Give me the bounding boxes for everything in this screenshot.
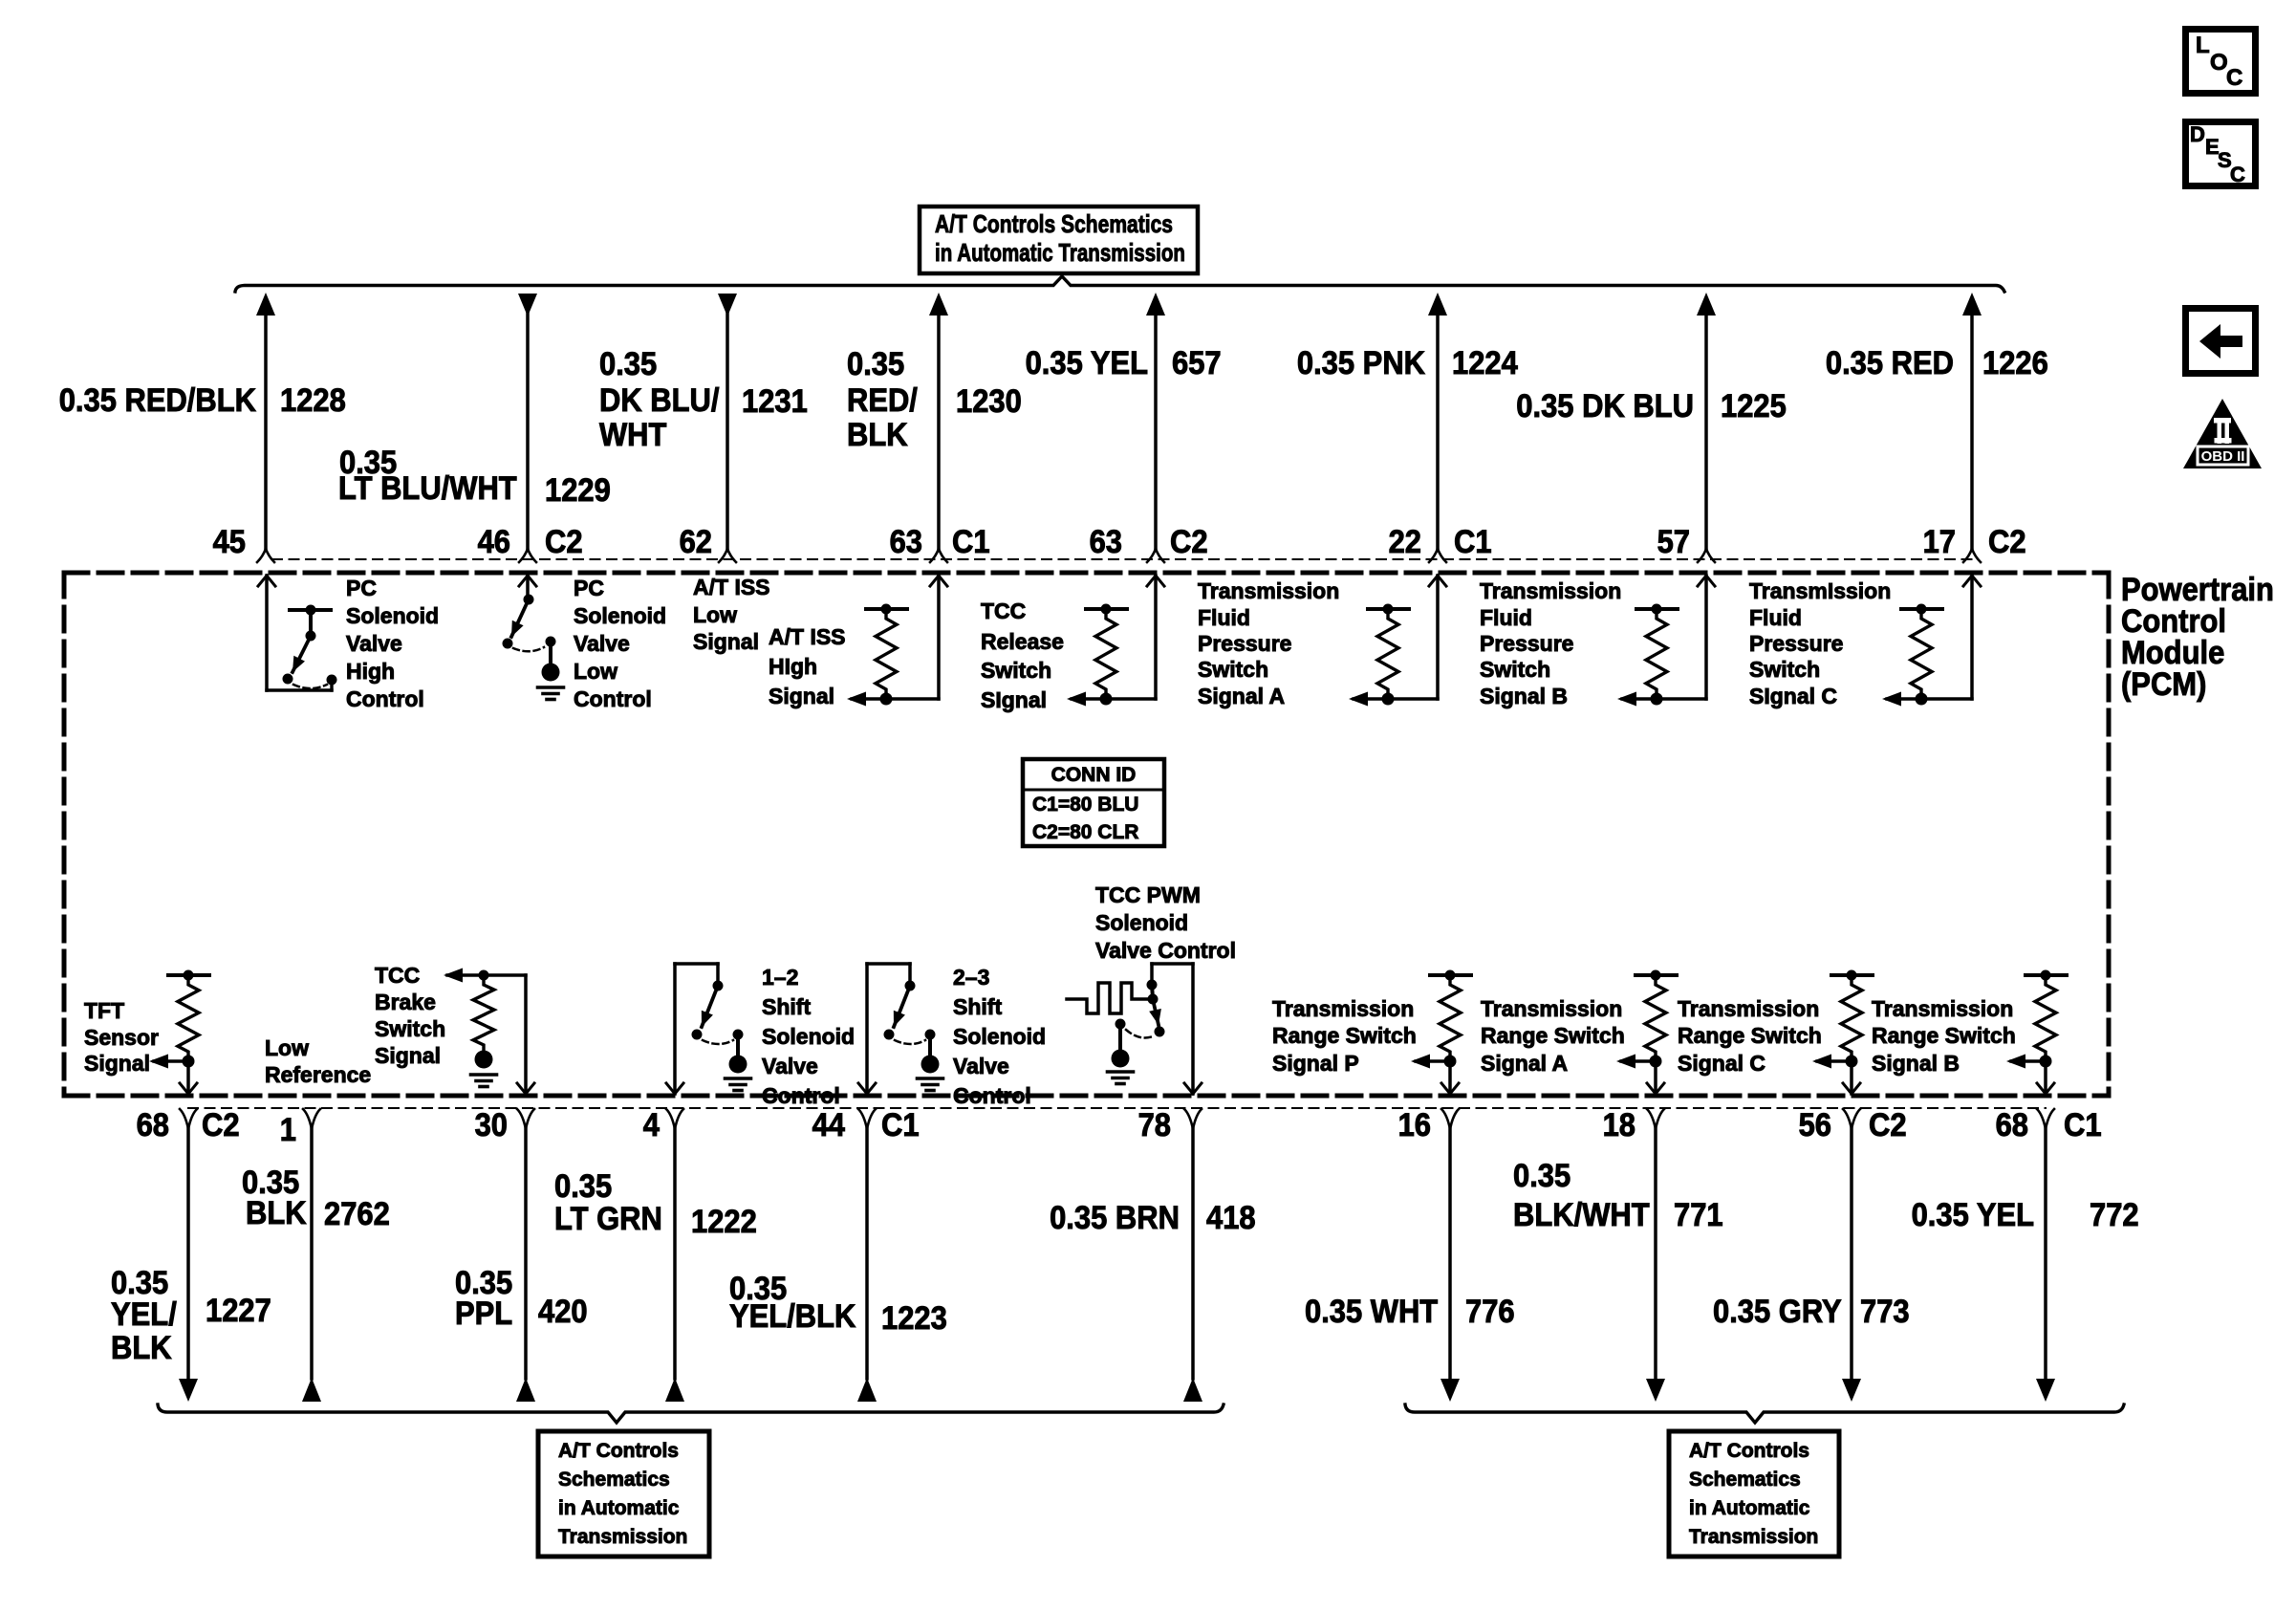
LOC icon <box>2186 30 2256 94</box>
svg-text:17: 17 <box>1923 524 1956 560</box>
svg-text:YEL/BLK: YEL/BLK <box>729 1298 856 1335</box>
svg-text:Transmission: Transmission <box>1678 996 1819 1021</box>
svg-text:Range Switch: Range Switch <box>1481 1023 1625 1048</box>
svg-text:0.35 YEL: 0.35 YEL <box>1026 345 1148 381</box>
svg-text:Valve: Valve <box>762 1054 818 1078</box>
svg-text:1227: 1227 <box>206 1293 271 1329</box>
svg-text:772: 772 <box>2090 1197 2139 1233</box>
svg-text:420: 420 <box>538 1294 588 1330</box>
svg-text:Solenoid: Solenoid <box>953 1024 1046 1049</box>
svg-text:44: 44 <box>812 1107 845 1143</box>
svg-text:Schematics: Schematics <box>558 1469 670 1491</box>
wire circuit 1224 (top, x=1504) <box>1428 293 1447 316</box>
PC solenoid valve high control switch (pin 45) <box>258 576 275 586</box>
svg-text:Pressure: Pressure <box>1198 631 1291 656</box>
svg-text:Schematics: Schematics <box>1689 1469 1801 1491</box>
svg-text:D: D <box>2190 122 2205 146</box>
svg-text:C2: C2 <box>1988 524 2026 560</box>
1-2 shift solenoid valve control switch (pin 4) <box>673 964 677 1094</box>
svg-text:1224: 1224 <box>1452 345 1518 381</box>
svg-text:in Automatic: in Automatic <box>1689 1497 1810 1519</box>
wire circuit 1228 (top, x=278) <box>256 293 275 316</box>
svg-text:BLK: BLK <box>847 417 908 453</box>
svg-text:Valve: Valve <box>574 631 630 656</box>
svg-text:C1: C1 <box>881 1107 920 1143</box>
svg-text:TCC: TCC <box>375 963 420 988</box>
svg-text:C: C <box>2230 163 2245 186</box>
svg-text:Solenoid: Solenoid <box>346 603 439 628</box>
wire circuit 1222 (bottom, x=706) <box>666 1109 675 1129</box>
wire circuit 1225 (top, x=1785) <box>1697 293 1716 316</box>
svg-text:0.35 BRN: 0.35 BRN <box>1050 1200 1180 1236</box>
svg-text:Transmission: Transmission <box>1481 996 1622 1021</box>
PC solenoid valve low control switch (pin 46) <box>519 576 536 586</box>
svg-text:56: 56 <box>1799 1107 1831 1143</box>
OBD II icon <box>2183 399 2262 468</box>
ground <box>538 686 564 689</box>
wire circuit 418 (bottom, x=1248) <box>1184 1109 1193 1129</box>
wire circuit 657 (top, x=1209) <box>1146 293 1165 316</box>
transmission range switch signal B resistor (pin 68 C1) <box>2025 973 2067 977</box>
svg-text:Switch: Switch <box>981 658 1051 683</box>
wire circuit 1226 (top, x=2063) <box>1962 293 1982 316</box>
svg-text:Sensor: Sensor <box>84 1025 159 1050</box>
svg-text:C1: C1 <box>952 524 990 560</box>
svg-text:LT BLU/WHT: LT BLU/WHT <box>338 470 517 507</box>
svg-text:Transmission: Transmission <box>1872 996 2013 1021</box>
wire circuit 420 (bottom, x=550) <box>517 1109 526 1129</box>
svg-text:68: 68 <box>137 1107 169 1143</box>
svg-text:Low: Low <box>574 659 617 684</box>
svg-text:Signal: Signal <box>375 1043 441 1068</box>
svg-text:Release: Release <box>981 629 1064 654</box>
svg-text:Switch: Switch <box>1480 657 1550 682</box>
ground <box>726 1077 751 1080</box>
transmission fluid pressure switch signal A resistor (pin 22) <box>1368 607 1409 611</box>
svg-text:1223: 1223 <box>881 1300 947 1337</box>
svg-text:16: 16 <box>1398 1107 1431 1143</box>
svg-text:2–3: 2–3 <box>953 965 989 990</box>
svg-text:1225: 1225 <box>1721 388 1787 425</box>
label box: A/T Controls Schematics in Automatic Transmission (bottom left) <box>538 1431 709 1557</box>
svg-text:YEL/: YEL/ <box>111 1296 177 1333</box>
wire circuit 773 (bottom, x=1937) <box>1843 1109 1852 1129</box>
svg-text:18: 18 <box>1603 1107 1635 1143</box>
DESC icon <box>2186 122 2256 186</box>
svg-text:0.35 GRY: 0.35 GRY <box>1713 1294 1842 1330</box>
svg-text:1231: 1231 <box>742 383 808 420</box>
svg-text:Range Switch: Range Switch <box>1872 1023 2016 1048</box>
ground <box>1108 1070 1134 1074</box>
svg-text:Transmission: Transmission <box>1689 1526 1818 1548</box>
TCC release switch signal resistor (pin 63 C2) <box>1086 607 1127 611</box>
svg-text:Fluid: Fluid <box>1480 605 1532 630</box>
svg-text:63: 63 <box>890 524 922 560</box>
svg-text:657: 657 <box>1172 345 1222 381</box>
svg-text:A/T Controls: A/T Controls <box>558 1440 679 1462</box>
svg-text:Valve Control: Valve Control <box>1095 938 1236 963</box>
svg-text:773: 773 <box>1860 1294 1910 1330</box>
svg-text:C1: C1 <box>1454 524 1492 560</box>
bottom brace (left group) <box>158 1404 1224 1423</box>
svg-text:Pressure: Pressure <box>1480 631 1573 656</box>
svg-text:1226: 1226 <box>1982 345 2048 381</box>
svg-text:Solenoid: Solenoid <box>1095 910 1188 935</box>
svg-text:1222: 1222 <box>691 1204 757 1240</box>
svg-text:DK BLU/: DK BLU/ <box>599 382 720 419</box>
svg-text:1230: 1230 <box>956 383 1022 420</box>
ground <box>471 1073 497 1077</box>
svg-text:0.35 YEL: 0.35 YEL <box>1912 1197 2034 1233</box>
svg-text:0.35: 0.35 <box>599 346 657 382</box>
svg-text:Switch: Switch <box>375 1016 445 1041</box>
svg-text:Transmission: Transmission <box>1198 578 1339 603</box>
svg-text:0.35: 0.35 <box>1513 1158 1570 1194</box>
svg-text:0.35 RED: 0.35 RED <box>1826 345 1954 381</box>
svg-text:22: 22 <box>1389 524 1421 560</box>
svg-text:Transmission: Transmission <box>1480 578 1621 603</box>
svg-text:RED/: RED/ <box>847 382 918 419</box>
svg-text:4: 4 <box>643 1107 660 1143</box>
svg-text:in Automatic: in Automatic <box>558 1497 680 1519</box>
svg-text:C1: C1 <box>2064 1107 2102 1143</box>
svg-text:0.35 RED/BLK: 0.35 RED/BLK <box>59 382 257 419</box>
bottom brace (right group) <box>1405 1404 2124 1423</box>
svg-text:CONN ID: CONN ID <box>1051 764 1137 786</box>
svg-text:C2: C2 <box>1869 1107 1907 1143</box>
svg-text:Low: Low <box>265 1035 309 1060</box>
svg-text:Shift: Shift <box>953 994 1002 1019</box>
svg-text:SIgnal C: SIgnal C <box>1749 684 1837 708</box>
svg-text:TCC PWM: TCC PWM <box>1095 882 1201 907</box>
svg-text:in Automatic Transmission: in Automatic Transmission <box>935 238 1185 267</box>
connector line (thin dashed, top) <box>272 558 1973 560</box>
svg-text:L: L <box>2196 33 2210 58</box>
svg-text:Valve: Valve <box>953 1054 1009 1078</box>
svg-text:C2: C2 <box>202 1107 240 1143</box>
svg-text:Solenoid: Solenoid <box>762 1024 855 1049</box>
svg-text:Signal: Signal <box>693 629 759 654</box>
svg-text:68: 68 <box>1996 1107 2028 1143</box>
svg-text:Pressure: Pressure <box>1749 631 1843 656</box>
transmission range switch signal P resistor (pin 16) <box>1430 973 1471 977</box>
PWM square wave symbol <box>1067 983 1147 1013</box>
svg-text:0.35 PNK: 0.35 PNK <box>1297 345 1426 381</box>
svg-text:C2: C2 <box>545 524 583 560</box>
svg-text:Signal A: Signal A <box>1198 684 1285 708</box>
svg-text:C: C <box>2226 65 2242 91</box>
svg-text:Range Switch: Range Switch <box>1272 1023 1417 1048</box>
svg-text:TransmIssion: TransmIssion <box>1749 578 1891 603</box>
svg-text:57: 57 <box>1657 524 1690 560</box>
svg-text:Reference: Reference <box>265 1062 371 1087</box>
svg-text:Transmission: Transmission <box>558 1526 687 1548</box>
PCM module dashed box <box>64 571 2109 576</box>
label box: A/T Controls Schematics in Automatic Transmission (bottom right) <box>1669 1431 1839 1557</box>
wire circuit 2762 (bottom, x=326) <box>303 1109 312 1129</box>
wire circuit 771 (bottom, x=1732) <box>1647 1109 1656 1129</box>
svg-text:0.35 WHT: 0.35 WHT <box>1305 1294 1438 1330</box>
svg-text:771: 771 <box>1674 1197 1723 1233</box>
svg-text:LT GRN: LT GRN <box>554 1201 662 1237</box>
CONN ID table <box>1023 759 1164 846</box>
svg-text:Signal B: Signal B <box>1872 1051 1960 1076</box>
svg-text:0.35: 0.35 <box>847 346 904 382</box>
svg-text:Signal C: Signal C <box>1678 1051 1765 1076</box>
svg-text:Signal P: Signal P <box>1272 1051 1359 1076</box>
svg-text:Brake: Brake <box>375 990 436 1014</box>
svg-text:C1=80 BLU: C1=80 BLU <box>1032 794 1138 816</box>
svg-text:TCC: TCC <box>981 599 1026 623</box>
TCC brake switch signal resistor (pin 30) <box>447 973 526 976</box>
svg-text:Valve: Valve <box>346 631 402 656</box>
svg-text:BLK: BLK <box>246 1195 307 1231</box>
svg-text:A/T ISS: A/T ISS <box>769 624 846 649</box>
svg-text:1–2: 1–2 <box>762 965 798 990</box>
svg-text:62: 62 <box>680 524 712 560</box>
svg-text:A/T Controls: A/T Controls <box>1689 1440 1809 1462</box>
svg-text:PC: PC <box>346 576 377 600</box>
svg-text:BLK: BLK <box>111 1330 172 1366</box>
ground <box>918 1077 943 1080</box>
svg-text:0.35: 0.35 <box>554 1168 612 1205</box>
svg-text:Transmission: Transmission <box>1272 996 1414 1021</box>
svg-text:High: High <box>346 659 395 684</box>
svg-text:PPL: PPL <box>455 1295 512 1332</box>
top brace to off-page A/T controls schematics <box>235 276 2004 292</box>
wire circuit 1230 (top, x=982) <box>929 293 948 316</box>
svg-text:63: 63 <box>1090 524 1122 560</box>
svg-text:BLK/WHT: BLK/WHT <box>1513 1197 1650 1233</box>
svg-text:Signal: Signal <box>84 1051 150 1076</box>
svg-text:45: 45 <box>213 524 246 560</box>
svg-text:30: 30 <box>475 1107 508 1143</box>
svg-text:SIgnal: SIgnal <box>981 687 1047 712</box>
svg-text:Switch: Switch <box>1749 657 1820 682</box>
svg-text:Fluid: Fluid <box>1749 605 1802 630</box>
svg-text:1228: 1228 <box>280 382 346 419</box>
svg-text:776: 776 <box>1465 1294 1515 1330</box>
TCC PWM solenoid valve control (pin 78) <box>1191 964 1195 1094</box>
2-3 shift solenoid valve control switch (pin 44 C1) <box>865 964 869 1094</box>
svg-text:Range Switch: Range Switch <box>1678 1023 1822 1048</box>
svg-text:Switch: Switch <box>1198 657 1268 682</box>
svg-text:HIgh: HIgh <box>769 654 817 679</box>
A/T ISS high signal resistor (pin 63 C1) <box>866 607 907 611</box>
svg-text:Control: Control <box>953 1083 1031 1108</box>
transmission fluid pressure switch signal C resistor (pin 17) <box>1901 607 1942 611</box>
svg-text:(PCM): (PCM) <box>2121 666 2206 703</box>
TFT sensor signal resistor (pin 68 C2) <box>168 973 209 977</box>
wire circuit 1227 (bottom, x=197) <box>180 1109 188 1129</box>
svg-text:PC: PC <box>574 576 604 600</box>
svg-text:Shift: Shift <box>762 994 811 1019</box>
svg-text:OBD II: OBD II <box>2201 448 2245 465</box>
svg-text:O: O <box>2210 50 2228 76</box>
svg-text:418: 418 <box>1206 1200 1256 1236</box>
svg-text:Signal: Signal <box>769 684 834 708</box>
svg-text:Solenoid: Solenoid <box>574 603 666 628</box>
svg-text:1229: 1229 <box>545 472 611 509</box>
svg-text:Fluid: Fluid <box>1198 605 1250 630</box>
svg-text:0.35 DK BLU: 0.35 DK BLU <box>1516 388 1694 425</box>
svg-text:TFT: TFT <box>84 998 124 1023</box>
svg-text:Signal B: Signal B <box>1480 684 1568 708</box>
svg-text:46: 46 <box>478 524 510 560</box>
connector line (thin dashed, bottom) <box>188 1107 2046 1109</box>
transmission range switch signal A resistor (pin 18) <box>1635 973 1677 977</box>
svg-text:2762: 2762 <box>324 1196 390 1232</box>
svg-text:78: 78 <box>1138 1107 1171 1143</box>
wire circuit 772 (bottom, x=2140) <box>2037 1109 2046 1129</box>
svg-text:C2: C2 <box>1170 524 1208 560</box>
svg-text:Control: Control <box>346 686 424 711</box>
wire circuit 1231 (top, x=761) <box>718 294 737 316</box>
svg-text:Control: Control <box>574 686 652 711</box>
back-arrow icon <box>2186 309 2256 374</box>
svg-text:C2=80 CLR: C2=80 CLR <box>1032 821 1138 843</box>
label box: A/T Controls Schematics in Automatic Transmission (top) <box>920 207 1198 273</box>
svg-text:A/T ISS: A/T ISS <box>693 575 770 599</box>
svg-text:Control: Control <box>762 1083 840 1108</box>
transmission fluid pressure switch signal B resistor (pin 57) <box>1636 607 1678 611</box>
svg-text:A/T Controls Schematics: A/T Controls Schematics <box>935 209 1173 238</box>
svg-text:1: 1 <box>280 1112 296 1148</box>
svg-text:Signal A: Signal A <box>1481 1051 1568 1076</box>
transmission range switch signal C resistor (pin 56 C2) <box>1831 973 1873 977</box>
wire circuit 1229 (top, x=552) <box>518 294 537 316</box>
wire circuit 1223 (bottom, x=907) <box>858 1109 867 1129</box>
wire circuit 776 (bottom, x=1517) <box>1441 1109 1450 1129</box>
svg-text:WHT: WHT <box>599 417 667 453</box>
svg-text:Low: Low <box>693 602 737 627</box>
